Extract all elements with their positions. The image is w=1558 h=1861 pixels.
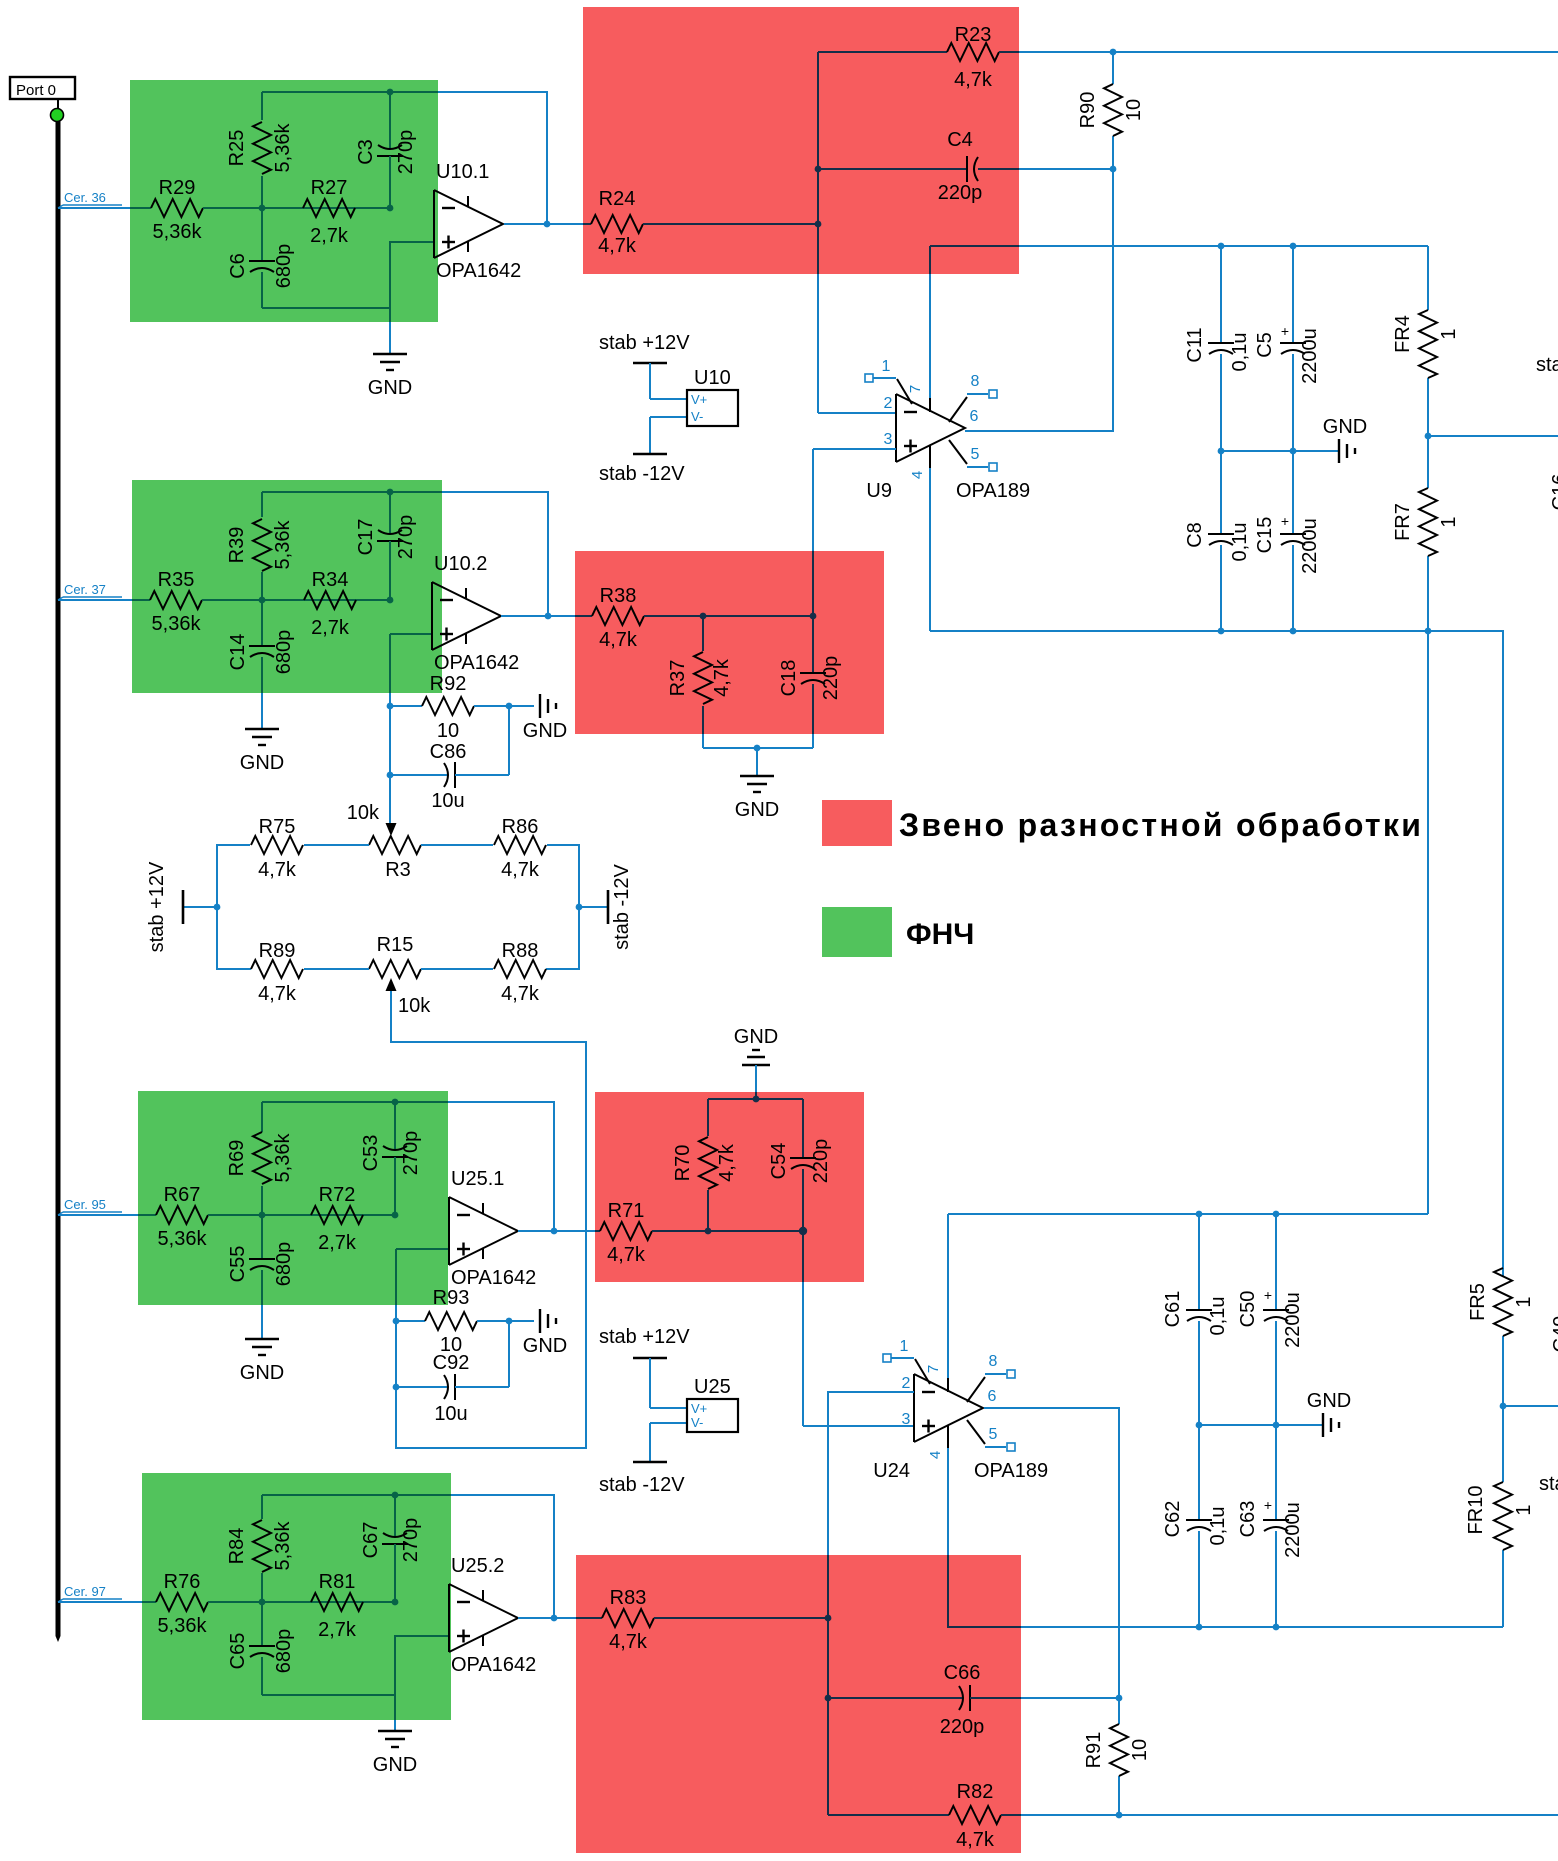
svg-text:ФНЧ: ФНЧ — [906, 918, 974, 951]
svg-text:2,7k: 2,7k — [318, 1232, 357, 1254]
resistor FR5 — [1467, 1268, 1535, 1406]
capacitor C55 — [227, 1215, 295, 1339]
svg-text:C11: C11 — [1184, 327, 1206, 362]
svg-text:R72: R72 — [319, 1184, 356, 1206]
svg-text:4,7k: 4,7k — [258, 983, 297, 1005]
wire -rail upper + long drop — [930, 631, 1503, 1276]
node feedback/C3 — [387, 89, 394, 96]
svg-text:C61: C61 — [1162, 1291, 1184, 1328]
svg-text:3: 3 — [884, 431, 893, 448]
node minus input sec2 — [387, 597, 394, 604]
resistor R35 — [150, 569, 202, 635]
svg-text:OPA1642: OPA1642 — [434, 652, 519, 674]
wire input node sec1 — [203, 207, 390, 209]
svg-text:V-: V- — [691, 1415, 703, 1430]
resistor R25 — [226, 122, 294, 174]
resistor R83 — [602, 1587, 654, 1653]
capacitor C62 — [1162, 1425, 1229, 1627]
node stab-12V tap — [576, 904, 583, 911]
wire diff1 column — [817, 52, 819, 274]
svg-text:GND: GND — [240, 752, 284, 774]
capacitor C4 — [815, 129, 1019, 204]
node FR4/FR7 — [1425, 433, 1432, 440]
node feedback/C53 — [392, 1099, 399, 1106]
resistor R93 — [393, 1287, 509, 1356]
svg-text:R86: R86 — [502, 816, 539, 838]
wire — [548, 615, 575, 617]
potentiometer R15 — [369, 934, 431, 1017]
svg-text:R82: R82 — [957, 1781, 994, 1803]
svg-text:R69: R69 — [226, 1140, 248, 1177]
wire R24 to node — [643, 223, 818, 225]
wire input node sec3 — [208, 1214, 395, 1216]
node diff3 gnd — [753, 1096, 760, 1103]
resistor FR7 — [1392, 436, 1460, 631]
svg-text:1: 1 — [882, 358, 891, 375]
power symbol stab -12V — [579, 864, 633, 950]
capacitor C14 — [227, 600, 295, 729]
svg-text:R89: R89 — [259, 940, 296, 962]
capacitor C11 — [1184, 246, 1251, 451]
wire — [978, 168, 1019, 170]
node C18 top — [810, 613, 817, 620]
svg-text:U10: U10 — [694, 367, 731, 389]
resistor R27 — [303, 177, 355, 247]
wire R15-R88 — [421, 968, 493, 970]
wire feedback top sec4 — [262, 1494, 451, 1496]
wire feedback top sec3 — [262, 1101, 448, 1103]
wire plus input sec1 — [262, 242, 434, 308]
node output/feedback sec1 — [544, 221, 551, 228]
svg-text:2200u: 2200u — [1299, 518, 1321, 574]
wire U9 pin4 — [929, 462, 931, 631]
svg-text:5: 5 — [971, 446, 980, 463]
capacitor C92 — [393, 1321, 509, 1425]
svg-text:R29: R29 — [159, 177, 196, 199]
wire — [947, 1214, 949, 1226]
wire — [1001, 1814, 1021, 1816]
wire R3-R86 — [421, 844, 493, 846]
svg-text:C6: C6 — [227, 253, 249, 279]
wire input node sec4 — [208, 1601, 395, 1603]
wire GND drop sec1 — [389, 308, 391, 322]
svg-text:R91: R91 — [1083, 1732, 1105, 1769]
node minus input sec4 — [392, 1599, 399, 1606]
svg-text:270p: 270p — [400, 1518, 422, 1563]
svg-text:220p: 220p — [938, 182, 983, 204]
svg-text:R93: R93 — [433, 1287, 470, 1309]
op-amp U24 — [873, 1338, 1048, 1482]
capacitor C67 — [360, 1495, 422, 1602]
op-amp U25.1 — [449, 1168, 536, 1289]
op-amp U9 — [865, 358, 1030, 502]
node FR5/FR10 — [1500, 1403, 1507, 1410]
svg-text:OPA1642: OPA1642 — [451, 1267, 536, 1289]
op-amp U10.2 — [432, 553, 519, 674]
wire — [948, 1213, 1428, 1215]
svg-text:GND: GND — [240, 1362, 284, 1384]
ground — [742, 1050, 770, 1065]
wire GND rail lower — [1199, 1424, 1323, 1426]
svg-text:GND: GND — [523, 720, 567, 742]
svg-text:stab -12V: stab -12V — [611, 864, 633, 950]
svg-text:2: 2 — [884, 395, 893, 412]
svg-text:GND: GND — [1323, 416, 1367, 438]
svg-text:R90: R90 — [1077, 92, 1099, 129]
svg-text:Cer. 36: Cer. 36 — [64, 190, 106, 205]
svg-text:V+: V+ — [691, 392, 707, 407]
svg-text:0,1u: 0,1u — [1229, 333, 1251, 372]
svg-text:R35: R35 — [158, 569, 195, 591]
node FR7 bottom — [1425, 628, 1432, 635]
wire C66 to R91 — [1021, 1697, 1119, 1699]
resistor R84 — [226, 1520, 294, 1572]
svg-text:R71: R71 — [608, 1200, 645, 1222]
svg-text:7: 7 — [907, 385, 924, 393]
svg-text:4: 4 — [927, 1451, 944, 1459]
node R15 wiper arrow — [386, 978, 397, 991]
svg-text:8: 8 — [971, 373, 980, 390]
svg-text:6: 6 — [970, 408, 979, 425]
wire feedback right sec4 — [451, 1495, 554, 1618]
svg-text:R38: R38 — [600, 585, 637, 607]
ground — [1307, 1390, 1351, 1437]
node R93/C92 right — [506, 1318, 513, 1325]
wire diff2 column — [812, 551, 814, 616]
svg-text:680p: 680p — [273, 1242, 295, 1287]
svg-text:R34: R34 — [312, 569, 349, 591]
svg-text:1: 1 — [1513, 1504, 1535, 1515]
svg-text:R84: R84 — [226, 1528, 248, 1565]
svg-text:2200u: 2200u — [1282, 1502, 1304, 1558]
resistor R81 — [311, 1571, 363, 1641]
ground — [373, 1731, 417, 1776]
svg-text:C62: C62 — [1162, 1501, 1184, 1538]
svg-text:sta: sta — [1536, 354, 1558, 376]
wire — [970, 1697, 1021, 1699]
resistor R39 — [226, 519, 294, 571]
wire U9 pin7 — [929, 246, 931, 274]
resistor FR4 — [1392, 246, 1460, 436]
wire U25.1 output — [518, 1230, 595, 1232]
wire R83 node — [654, 1617, 828, 1619]
svg-text:R88: R88 — [502, 940, 539, 962]
svg-text:C8: C8 — [1184, 522, 1206, 548]
svg-text:5,36k: 5,36k — [272, 123, 294, 173]
svg-text:C92: C92 — [433, 1352, 470, 1374]
node output/feedback sec4 — [551, 1615, 558, 1622]
svg-text:3: 3 — [902, 1411, 911, 1428]
svg-text:U9: U9 — [866, 480, 892, 502]
svg-text:C66: C66 — [944, 1662, 981, 1684]
svg-text:R83: R83 — [610, 1587, 647, 1609]
svg-text:680p: 680p — [273, 630, 295, 675]
svg-text:C3: C3 — [355, 139, 377, 165]
ground — [523, 694, 567, 742]
wire — [818, 168, 967, 170]
svg-text:2: 2 — [902, 1375, 911, 1392]
svg-text:GND: GND — [734, 1026, 778, 1048]
node R70 bottom — [705, 1228, 712, 1235]
wire Cer.97 tap — [58, 1601, 142, 1603]
svg-text:R81: R81 — [319, 1571, 356, 1593]
svg-text:1: 1 — [1438, 516, 1460, 527]
wire — [576, 1617, 602, 1619]
svg-text:U25.1: U25.1 — [451, 1168, 504, 1190]
svg-text:680p: 680p — [273, 244, 295, 289]
capacitor C6 — [227, 208, 295, 308]
svg-text:C49: C49 — [1550, 1316, 1558, 1353]
svg-text:stab +12V: stab +12V — [146, 861, 168, 952]
wire plus input sec4 — [262, 1636, 449, 1695]
capacitor C18 — [778, 616, 842, 748]
wire bottom rail out — [1021, 1814, 1558, 1816]
capacitor C66 — [825, 1662, 1021, 1738]
svg-text:0,1u: 0,1u — [1207, 1297, 1229, 1336]
highlight box: LPF section 1 — [130, 80, 438, 322]
svg-text:GND: GND — [523, 1335, 567, 1357]
resistor R90 — [1077, 52, 1145, 169]
capacitor C15 — [1254, 451, 1321, 631]
wire R25 stubs — [261, 92, 263, 120]
node diff1 column/R24 — [815, 221, 822, 228]
svg-text:C16: C16 — [1549, 474, 1558, 511]
highlight box: diff section 3 — [595, 1092, 864, 1282]
svg-text:C17: C17 — [355, 519, 377, 556]
svg-text:5,36k: 5,36k — [158, 1228, 208, 1250]
ground — [1323, 416, 1367, 463]
svg-text:270p: 270p — [400, 1131, 422, 1176]
resistor R71 — [600, 1200, 652, 1266]
wire stab out upper — [1428, 435, 1558, 437]
capacitor C50 — [1237, 1214, 1304, 1425]
wire — [828, 1814, 949, 1816]
svg-text:R37: R37 — [667, 660, 689, 697]
wire — [142, 1601, 156, 1603]
wire U10.1 output — [504, 223, 583, 225]
svg-text:5,36k: 5,36k — [152, 613, 202, 635]
node feedback/C17 — [387, 489, 394, 496]
resistor R86 — [494, 816, 546, 881]
node C54 bottom — [799, 1227, 807, 1235]
svg-text:R3: R3 — [385, 859, 411, 881]
svg-text:0,1u: 0,1u — [1207, 1507, 1229, 1546]
wire feedback right sec3 — [448, 1102, 554, 1231]
capacitor C3 — [355, 92, 417, 208]
wire GND drop sec4 — [394, 1695, 396, 1720]
svg-text:stab +12V: stab +12V — [599, 332, 690, 354]
wire U10.2 output — [501, 615, 575, 617]
wire — [948, 1620, 1021, 1627]
wire U24 pin4 — [947, 1442, 949, 1555]
resistor R76 — [156, 1571, 208, 1637]
svg-text:R25: R25 — [226, 130, 248, 167]
wire U9 output to R90 — [965, 169, 1113, 431]
wire top rail out — [1019, 51, 1558, 53]
svg-text:U25.2: U25.2 — [451, 1555, 504, 1577]
wire — [138, 1214, 156, 1216]
wire GND rail upper — [1221, 450, 1339, 452]
svg-text:4,7k: 4,7k — [598, 235, 637, 257]
svg-text:OPA1642: OPA1642 — [451, 1654, 536, 1676]
ground — [240, 729, 284, 774]
svg-text:R23: R23 — [955, 24, 992, 46]
node R37 top — [700, 613, 707, 620]
wire left rail — [217, 845, 251, 969]
highlight box: LPF section 3 — [138, 1091, 448, 1305]
svg-text:U25: U25 — [694, 1376, 731, 1398]
svg-text:10: 10 — [437, 720, 459, 742]
resistor R37 — [667, 616, 733, 748]
svg-text:4: 4 — [909, 471, 926, 479]
svg-text:10k: 10k — [347, 802, 380, 824]
node R3 wiper arrow — [386, 823, 397, 836]
wire diff2 bottom — [703, 747, 813, 749]
capacitor C8 — [1184, 451, 1251, 631]
highlight box: diff section 2 — [575, 551, 884, 734]
wire — [583, 223, 591, 225]
highlight box: diff section 1 — [583, 7, 1019, 274]
svg-text:FR5: FR5 — [1467, 1283, 1489, 1321]
svg-text:U10.2: U10.2 — [434, 553, 487, 575]
node output/feedback sec2 — [545, 613, 552, 620]
svg-text:5,36k: 5,36k — [272, 1521, 294, 1571]
svg-text:C65: C65 — [227, 1633, 249, 1670]
svg-text:4,7k: 4,7k — [599, 629, 638, 651]
node output/feedback sec3 — [551, 1228, 558, 1235]
svg-text:C53: C53 — [360, 1135, 382, 1172]
svg-text:10u: 10u — [431, 790, 464, 812]
svg-text:5,36k: 5,36k — [158, 1615, 208, 1637]
svg-text:OPA189: OPA189 — [974, 1460, 1048, 1482]
legend diff color swatch — [822, 800, 892, 846]
node feedback/C67 — [392, 1492, 399, 1499]
svg-text:C67: C67 — [360, 1522, 382, 1559]
node Port 0 pin — [51, 109, 64, 122]
wire inter-section drop — [1427, 631, 1429, 1214]
capacitor C61 — [1162, 1214, 1229, 1425]
wire +rail upper — [1019, 245, 1428, 247]
svg-text:4,7k: 4,7k — [501, 983, 540, 1005]
svg-text:Звено разностной обработки: Звено разностной обработки — [899, 807, 1423, 843]
svg-text:2,7k: 2,7k — [310, 225, 349, 247]
wire feedback right sec2 — [442, 492, 548, 616]
wire (bus) — [56, 121, 61, 1636]
svg-text:stab -12V: stab -12V — [599, 463, 685, 485]
op-amp U25.2 — [449, 1555, 536, 1676]
svg-text:C5: C5 — [1254, 332, 1276, 358]
highlight box: LPF section 4 — [142, 1473, 451, 1720]
op-amp U10.1 — [434, 161, 521, 282]
svg-text:+: + — [1281, 323, 1289, 339]
resistor R24 — [591, 188, 643, 257]
resistor R69 — [226, 1132, 294, 1184]
wire R69 stubs — [261, 1102, 263, 1132]
wire diff3 top — [708, 1098, 803, 1100]
svg-text:2,7k: 2,7k — [318, 1619, 357, 1641]
svg-text:FR7: FR7 — [1392, 503, 1414, 541]
svg-text:OPA189: OPA189 — [956, 480, 1030, 502]
wire — [509, 705, 534, 707]
wire feedback top sec2 — [262, 491, 442, 493]
svg-text:C14: C14 — [227, 634, 249, 671]
capacitor C86 — [387, 706, 509, 812]
wire — [595, 1230, 600, 1232]
svg-text:4,7k: 4,7k — [954, 69, 993, 91]
svg-text:+: + — [1281, 513, 1289, 529]
power symbol stab +12V — [146, 861, 217, 952]
svg-text:C15: C15 — [1254, 517, 1276, 554]
wire R89-R15 — [304, 968, 369, 970]
wire R38 node — [644, 615, 813, 617]
svg-text:8: 8 — [989, 1353, 998, 1370]
wire diff4 column — [827, 1555, 829, 1618]
wire R15 wiper to U25.1 plus — [391, 991, 586, 1448]
svg-text:GND: GND — [368, 377, 412, 399]
wire to U9 pin2 — [818, 412, 896, 414]
svg-text:Cer. 95: Cer. 95 — [64, 1197, 106, 1212]
Port 0 connector — [10, 77, 75, 110]
svg-text:R39: R39 — [226, 527, 248, 564]
wire — [828, 1697, 963, 1699]
wire R75-R3 — [304, 844, 369, 846]
capacitor C63 — [1237, 1425, 1304, 1627]
svg-text:GND: GND — [1307, 1390, 1351, 1412]
wire Cer.37 tap — [58, 599, 132, 601]
resistor R38 — [592, 585, 644, 651]
wire plus input sec2 — [390, 633, 432, 635]
svg-text:C55: C55 — [227, 1246, 249, 1283]
svg-text:R67: R67 — [164, 1184, 201, 1206]
svg-text:+: + — [1264, 1497, 1272, 1513]
ground — [523, 1309, 567, 1357]
resistor R34 — [304, 569, 356, 639]
resistor R91 — [1083, 1698, 1151, 1815]
highlight box: diff section 4 — [576, 1555, 1021, 1853]
wire — [999, 51, 1019, 53]
node stab+12V tap — [214, 904, 221, 911]
svg-text:270p: 270p — [395, 515, 417, 560]
resistor R67 — [156, 1184, 208, 1250]
svg-text:C18: C18 — [778, 660, 800, 697]
svg-text:1: 1 — [1438, 328, 1460, 339]
svg-text:C50: C50 — [1237, 1291, 1259, 1328]
svg-text:C86: C86 — [430, 741, 467, 763]
wire U25.2 output — [518, 1617, 576, 1619]
resistor R72 — [311, 1184, 363, 1254]
svg-text:C63: C63 — [1237, 1501, 1259, 1538]
capacitor C65 — [227, 1602, 295, 1695]
wire R71 node — [652, 1230, 803, 1232]
svg-text:sta: sta — [1539, 1473, 1558, 1495]
svg-text:4,7k: 4,7k — [258, 859, 297, 881]
resistor R29 — [151, 177, 203, 243]
svg-text:5: 5 — [989, 1426, 998, 1443]
node junction R35/R39/C14 — [259, 597, 266, 604]
svg-text:220p: 220p — [810, 1139, 832, 1184]
svg-text:R27: R27 — [311, 177, 348, 199]
wire — [984, 1408, 1119, 1698]
node R91 top — [1116, 1695, 1123, 1702]
wire stab out lower — [1503, 1405, 1558, 1407]
node R91 bottom — [1116, 1812, 1123, 1819]
svg-text:Cer. 37: Cer. 37 — [64, 582, 106, 597]
wire R84 stubs — [261, 1495, 263, 1519]
svg-text:+: + — [1264, 1287, 1272, 1303]
wire C4 to R90 — [1019, 168, 1113, 170]
node junction R67/R69/C55 — [259, 1212, 266, 1219]
svg-text:2200u: 2200u — [1282, 1292, 1304, 1348]
